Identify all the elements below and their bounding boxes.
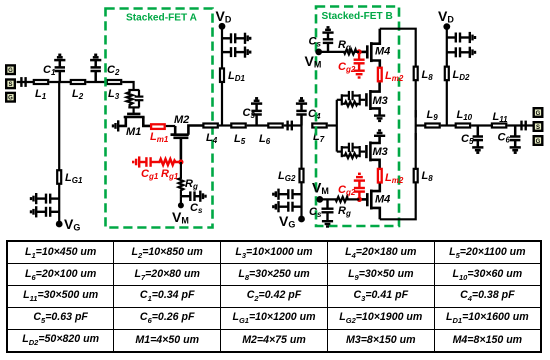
wire L2-L3 [86,81,106,83]
transistor M3 upper [366,82,379,115]
svg-text:S: S [536,125,540,131]
wire L4-L5 [219,124,232,126]
capacitor Cs bottom [322,199,334,221]
box Stacked-FET B [316,7,399,227]
output pad G top [534,108,543,117]
input pad G top [6,65,15,74]
svg-text:M4: M4 [375,194,390,206]
wire VD down [221,26,223,125]
svg-text:VD: VD [438,8,454,25]
svg-text:C2: C2 [107,64,120,77]
node VG2 [298,216,305,223]
inductor LG2 [300,169,304,183]
svg-text:G: G [8,68,13,74]
capacitor DC block mid [288,121,292,131]
ground M3 upper source [374,116,385,121]
svg-text:L6: L6 [259,133,271,146]
bypass capacitor VG2 upper [273,189,301,200]
svg-text:LG1: LG1 [65,172,83,185]
wire VM top [319,51,337,53]
svg-text:Lm1: Lm1 [150,131,169,144]
ground M3 lower source [374,131,385,136]
capacitor Cs (M2) [181,191,200,201]
output pad G bottom [534,136,543,145]
bypass capacitor VD1 upper [222,33,250,44]
capacitor C4 [296,98,307,125]
wire L11 to output [507,124,532,126]
wire L6 to series cap to C4 node [284,124,302,126]
bypass capacitor VG lower [31,206,59,217]
svg-text:S: S [8,82,12,88]
inductor L4 [203,124,217,128]
transistor M4 upper [359,29,380,67]
transistor M1 [118,114,150,126]
RC network lower M3 gate [337,143,365,158]
wire Rg node to VM [180,196,182,206]
bypass capacitor VD2 upper [447,32,475,43]
svg-text:G: G [8,96,13,102]
svg-text:VM: VM [305,53,322,70]
svg-text:LD1: LD1 [228,70,246,83]
inductor L9 [425,124,439,128]
svg-text:Cg2: Cg2 [338,61,356,74]
inductor LD1 [220,68,224,82]
svg-text:Rg: Rg [338,205,351,218]
svg-text:Cs: Cs [309,36,322,49]
box Stacked-FET A [106,9,213,228]
svg-text:L9: L9 [427,109,439,122]
svg-text:C6: C6 [498,132,511,145]
svg-text:L10: L10 [457,109,473,122]
RC network R-C parallel at M1 gate [127,90,144,113]
svg-text:L5: L5 [234,133,246,146]
ground mini at M1 source [113,120,118,131]
capacitor C1 [54,55,65,82]
svg-text:G: G [536,139,541,145]
transistor M4 lower [359,184,379,220]
svg-text:L3: L3 [108,88,120,101]
capacitor DC block output [522,121,526,131]
inductor L8 upper [414,67,418,81]
svg-text:L2: L2 [72,88,84,101]
wire C4 node down to LG2 [300,126,302,220]
bypass capacitor VG2 lower [273,201,301,212]
svg-text:Stacked-FET B: Stacked-FET B [322,11,393,22]
inductor L8 lower [414,169,418,183]
svg-text:C3: C3 [243,107,256,120]
svg-text:LG2: LG2 [278,170,296,183]
inductor L5 [231,124,245,128]
bypass capacitor VD1 lower [222,47,250,58]
svg-text:Lm2: Lm2 [385,70,404,83]
resistor Rg upper [337,49,360,54]
inductor LG1 [57,170,61,184]
capacitor DC block input [21,77,25,87]
inductor L1 [34,80,48,84]
svg-text:Cg1: Cg1 [141,168,159,181]
svg-text:M3: M3 [373,95,388,107]
capacitor Cs top [323,33,333,52]
wire L9 to L10 [441,124,455,126]
inductor L3 [107,80,121,84]
svg-text:VD: VD [216,8,232,25]
bypass capacitor VD2 lower [447,47,475,58]
svg-text:Stacked-FET A: Stacked-FET A [126,13,198,24]
input pad S [6,80,15,89]
svg-text:Lm2: Lm2 [385,172,404,185]
svg-text:C5: C5 [461,133,474,146]
svg-text:M4: M4 [375,46,390,58]
svg-text:L4: L4 [206,132,218,145]
svg-text:M3: M3 [373,146,388,158]
svg-text:L11: L11 [493,111,509,124]
node line down to LG1 [58,82,60,224]
wire L1-L2 [49,81,70,83]
inductor L11 [492,124,506,128]
svg-text:Cs: Cs [309,206,322,219]
wire input [17,81,33,83]
node VM bottom [316,196,323,203]
transistor M3 lower [366,136,379,168]
capacitor C5 [472,126,483,153]
inductor L10 [456,124,470,128]
inductor L6 [268,124,282,128]
node VM [178,202,184,208]
inductor Lm2 upper (red) [378,68,382,82]
wire L10 to L11 [471,124,491,126]
inductor Lm2 lower (red) [378,169,382,183]
svg-text:G: G [536,111,541,117]
svg-text:M2: M2 [174,114,189,126]
RC network upper M3 gate [337,91,365,106]
resistor Rg (M2 gate bias) [179,162,184,196]
svg-text:M1: M1 [126,126,141,138]
svg-text:C1: C1 [43,64,56,77]
inductor Lm1 (red) [151,124,165,129]
wire VD2 down [446,27,448,126]
svg-text:L8: L8 [422,69,434,82]
svg-text:Rg: Rg [338,39,351,52]
svg-text:VM: VM [172,209,189,226]
capacitor C6 [510,126,521,153]
svg-text:VG: VG [279,213,295,230]
svg-text:C4: C4 [308,108,321,121]
capacitor Cg2 lower (red) [354,174,365,200]
input pad G bottom [6,93,15,102]
svg-text:Cs: Cs [190,202,203,215]
capacitor C2 [90,55,101,82]
node VG [56,221,63,228]
inductor L2 [71,80,85,84]
wire M4 drain top to rail [380,29,416,118]
capacitor Cg2 upper (red) [354,52,365,78]
capacitor C3 [251,98,262,125]
wire L7 to bus [328,124,337,126]
svg-text:L1: L1 [35,88,47,101]
output pad S [534,122,543,131]
svg-text:LD2: LD2 [453,69,471,82]
svg-text:VG: VG [64,216,80,233]
capacitor Cg1 with resistor Rg1 (red branch) [133,156,181,167]
resistor Rg lower [320,197,360,202]
transistor M2 [171,126,204,163]
wire bus vertical [336,100,338,152]
wire Lm1 to M2 [166,125,175,127]
inductor LD2 [445,67,449,81]
svg-text:Rg: Rg [185,178,198,191]
wire L5-L6 [247,124,268,126]
bypass capacitor VG upper [31,193,59,204]
inductor L7 [312,124,326,128]
node red junction [178,159,183,164]
wire rail mid [415,110,417,140]
node VM top [315,49,322,56]
wire L3 to RC network [122,82,133,90]
wire M4 drain bottom to rail [380,133,416,219]
svg-text:L8: L8 [422,170,434,183]
wire rail to L9 [416,124,425,126]
svg-text:VM: VM [312,180,329,197]
